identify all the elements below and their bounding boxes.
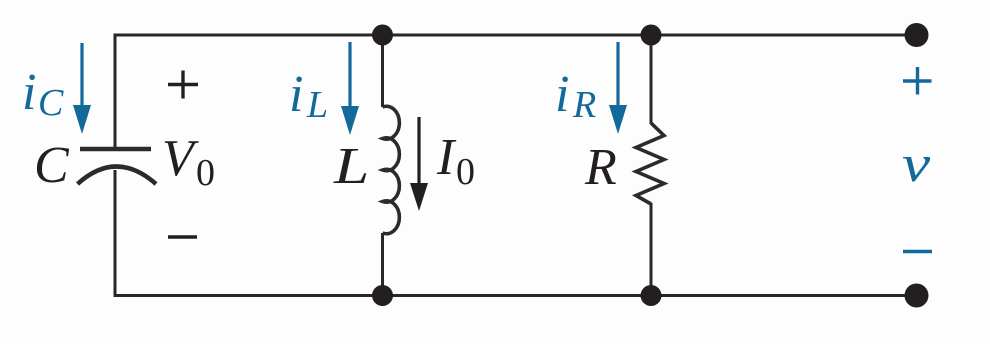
svg-text:i: i (22, 64, 36, 121)
svg-text:I: I (436, 129, 457, 186)
current arrow i_R (609, 42, 627, 134)
node: top junction at resistor (641, 25, 662, 46)
wire: inductor branch lower segment (381, 233, 384, 297)
svg-text:v: v (902, 134, 930, 192)
svg-text:L: L (333, 136, 369, 194)
svg-text:R: R (584, 139, 617, 196)
wire: capacitor branch lower segment and bottom rail (115, 170, 917, 296)
wire: resistor branch lower segment (650, 203, 653, 297)
node: top-right terminal (905, 23, 929, 47)
svg-text:i: i (555, 66, 569, 123)
resistor R1 zigzag (636, 123, 664, 204)
svg-text:R: R (572, 84, 596, 126)
svg-text:C: C (38, 82, 64, 124)
svg-text:0: 0 (456, 151, 475, 193)
svg-text:i: i (289, 66, 303, 123)
wire: resistor branch upper segment (650, 33, 653, 124)
inductor L1 coil (383, 106, 400, 234)
wire: top rail and capacitor branch upper segment (115, 35, 917, 149)
svg-text:C: C (34, 137, 70, 194)
label + of V0 (168, 71, 198, 99)
label v (902, 134, 930, 192)
label − of v (903, 250, 932, 253)
wire: inductor branch upper segment (381, 33, 384, 107)
label + of v (903, 67, 932, 95)
svg-text:V: V (162, 130, 199, 187)
node: bottom junction at inductor (372, 285, 393, 306)
label L (333, 136, 369, 194)
svg-text:L: L (306, 84, 328, 126)
current arrow I0 (410, 117, 428, 211)
svg-text:0: 0 (196, 152, 215, 194)
capacitor C1 plates (78, 149, 157, 184)
node: bottom-right terminal (905, 284, 929, 308)
label − of V0 (168, 235, 197, 238)
current arrow i_L (341, 42, 359, 135)
node: bottom junction at resistor (641, 285, 662, 306)
current arrow i_C (73, 43, 91, 134)
node: top junction at inductor (372, 25, 393, 46)
